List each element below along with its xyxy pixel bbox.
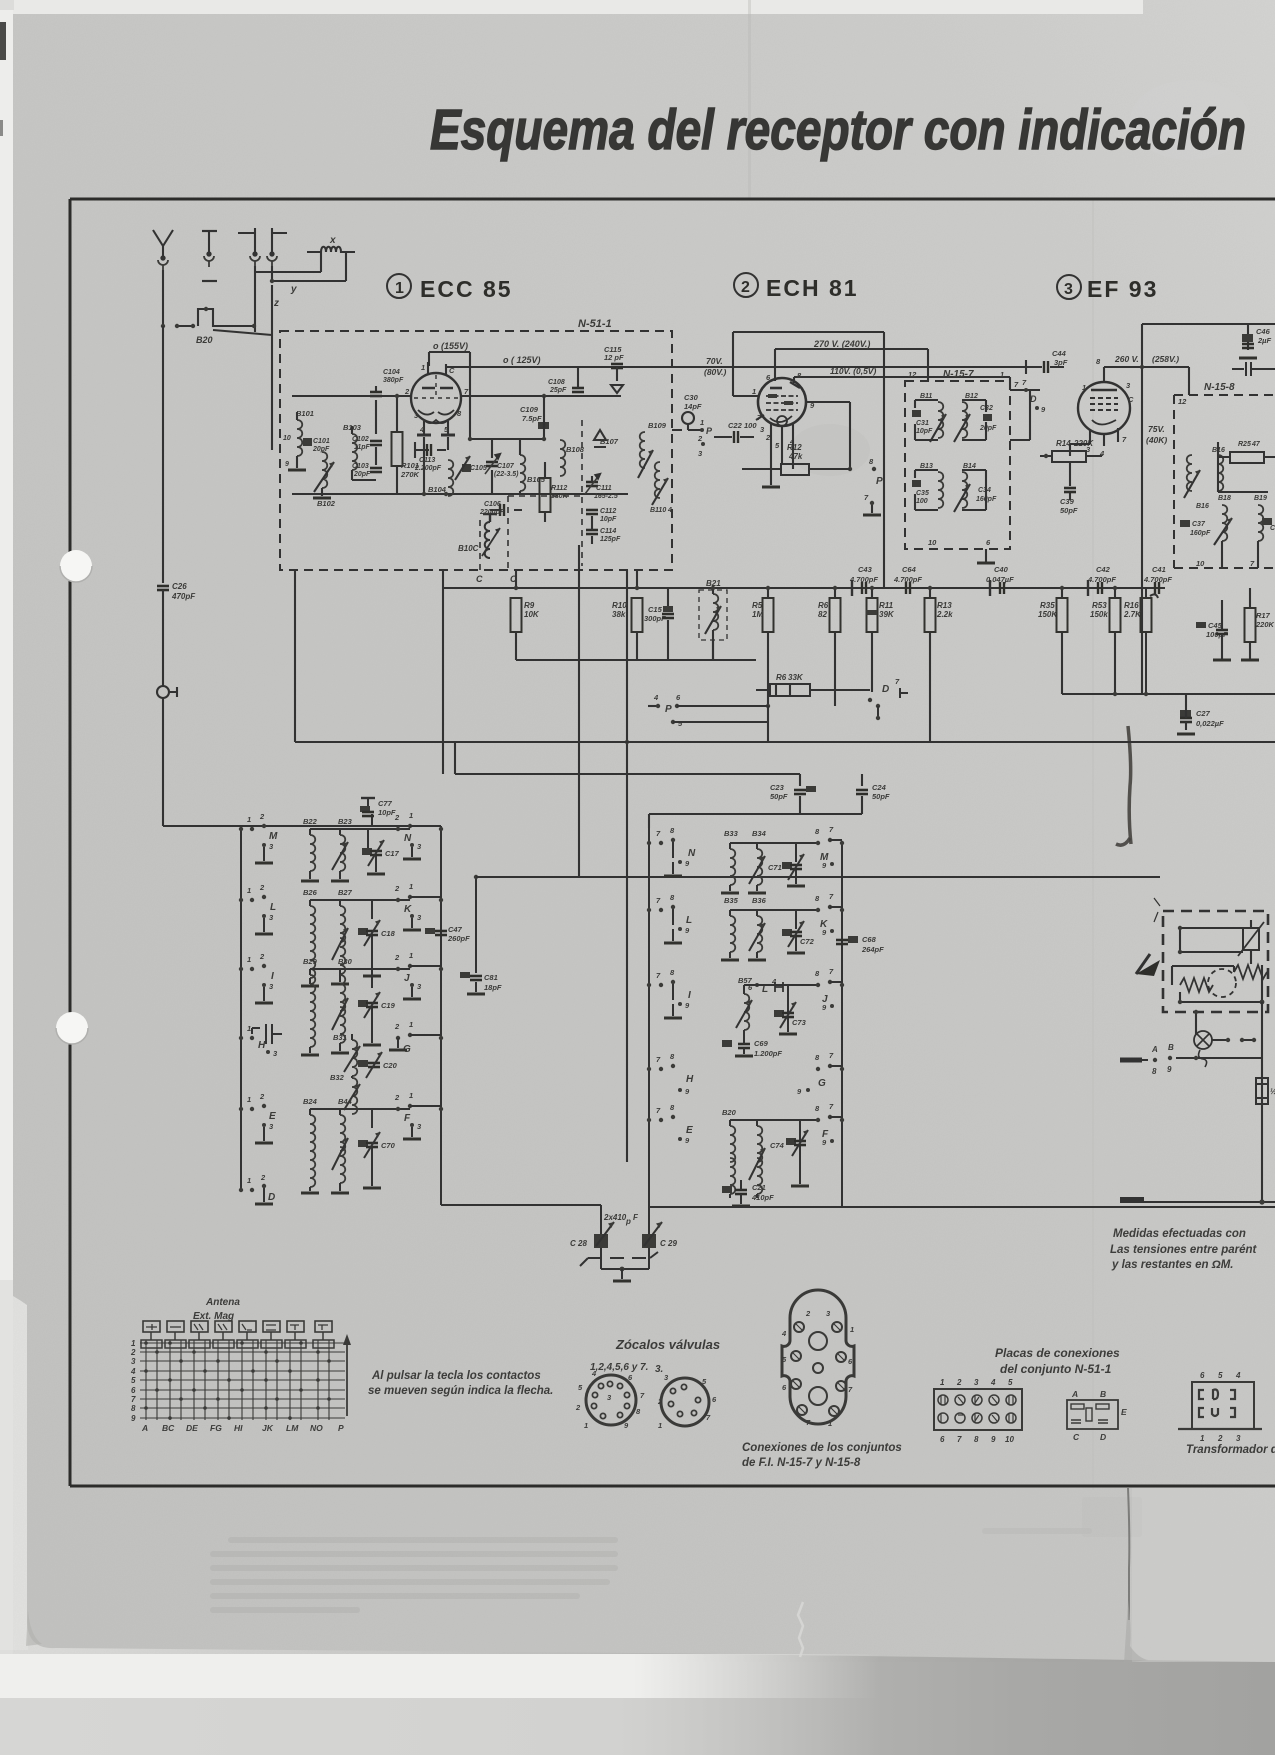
resistor R112 380K [540, 478, 551, 512]
row H/G [239, 1020, 443, 1114]
svg-text:A: A [1071, 1389, 1078, 1399]
heater resistor right [1234, 965, 1267, 979]
svg-text:C26: C26 [172, 582, 187, 591]
svg-text:C105: C105 [470, 465, 487, 472]
svg-text:4: 4 [591, 1369, 597, 1378]
coil B20c trimmer [756, 1120, 758, 1126]
wire bottom bus of box [292, 493, 628, 495]
svg-text:6: 6 [1200, 1371, 1205, 1380]
svg-text:1: 1 [828, 1419, 832, 1428]
svg-text:12: 12 [908, 370, 917, 379]
svg-text:BC: BC [162, 1423, 175, 1433]
svg-text:1: 1 [850, 1325, 854, 1334]
wire 774 + caps C23 C24 [455, 742, 862, 786]
svg-text:0,022µF: 0,022µF [1196, 719, 1224, 728]
svg-text:C20: C20 [383, 1061, 398, 1070]
note text medidas [1110, 1228, 1258, 1271]
wire o(125V) line [446, 366, 1040, 368]
svg-text:B20: B20 [196, 335, 213, 345]
svg-text:1: 1 [131, 1339, 136, 1348]
svg-text:4: 4 [1235, 1371, 1241, 1380]
svg-text:B32: B32 [330, 1073, 345, 1082]
stage label 1 ECC 85 [387, 274, 411, 298]
svg-text:C19: C19 [381, 1001, 396, 1010]
trimmer cap C70 [358, 1140, 368, 1147]
svg-text:1: 1 [658, 1421, 662, 1430]
svg-text:B101: B101 [296, 409, 314, 418]
svg-text:C109: C109 [520, 405, 539, 414]
svg-text:2: 2 [259, 952, 265, 961]
svg-text:20pF: 20pF [353, 471, 371, 478]
svg-text:B23: B23 [338, 817, 353, 826]
svg-text:R16: R16 [1124, 601, 1139, 610]
row L/K [647, 892, 884, 995]
contact P 4 6 [648, 705, 658, 707]
svg-text:B29: B29 [303, 957, 318, 966]
svg-text:10: 10 [1196, 559, 1205, 568]
svg-text:I: I [271, 971, 274, 982]
wire 877 to right [476, 876, 1160, 878]
svg-text:4.700pF: 4.700pF [893, 575, 922, 584]
svg-text:B33: B33 [724, 829, 739, 838]
row I/J [647, 967, 844, 1058]
svg-text:C: C [476, 574, 483, 584]
coil B105 [520, 455, 525, 491]
svg-text:150K: 150K [1038, 610, 1058, 619]
svg-text:B19: B19 [1254, 495, 1267, 502]
connection plate N-51-1 [934, 1389, 1022, 1430]
ECH81 pin leads [756, 415, 793, 485]
svg-text:7: 7 [957, 1435, 962, 1444]
svg-text:C46: C46 [1256, 327, 1271, 336]
svg-text:FG: FG [210, 1423, 222, 1433]
svg-text:C70: C70 [381, 1141, 396, 1150]
svg-text:C77: C77 [378, 799, 393, 808]
svg-text:C45: C45 [1208, 621, 1223, 630]
svg-text:47: 47 [1251, 441, 1261, 448]
wires upper cell [1180, 920, 1251, 964]
svg-text:2: 2 [394, 1093, 400, 1102]
svg-text:1M: 1M [752, 610, 763, 619]
svg-text:R53: R53 [1092, 601, 1107, 610]
heater resistor left [1180, 978, 1213, 992]
trimmer C111 [585, 474, 600, 494]
svg-text:se mueven según indica la fle: se mueven según indica la flecha. [368, 1385, 553, 1397]
pin numbers [404, 363, 469, 434]
svg-text:1: 1 [421, 363, 425, 372]
svg-text:165-2.5: 165-2.5 [594, 493, 618, 500]
svg-text:R14: R14 [1056, 439, 1071, 448]
coil B108 [560, 440, 565, 476]
caption conexiones FI [742, 1442, 902, 1469]
resistor R10 38k [632, 598, 643, 632]
trimmer cap C101 20pF [303, 438, 312, 446]
wire from box down [1195, 1012, 1197, 1034]
svg-text:82: 82 [818, 610, 827, 619]
svg-text:de F.I. N-15-7 y N-15-8: de F.I. N-15-7 y N-15-8 [742, 1457, 861, 1469]
resistor R5 1M [763, 598, 774, 632]
svg-text:8: 8 [131, 1404, 136, 1413]
fuse resistor [1256, 1078, 1268, 1104]
antenna A1 [153, 230, 173, 258]
ECH81 pin numbers [752, 371, 815, 450]
trimmer cap C73 [774, 1010, 784, 1017]
svg-text:1: 1 [247, 1176, 251, 1185]
svg-text:C71: C71 [768, 863, 782, 872]
svg-text:260 V.: 260 V. [1114, 354, 1139, 364]
inner partition dashes [508, 420, 582, 570]
svg-text:5: 5 [1008, 1378, 1013, 1387]
resistor R6 82 [830, 598, 841, 632]
svg-text:B24: B24 [303, 1097, 318, 1106]
right bus middle bank [841, 843, 843, 1207]
svg-text:C18: C18 [381, 929, 396, 938]
contact L2 small [755, 983, 759, 987]
svg-text:2x410: 2x410 [603, 1213, 627, 1222]
wire z down [271, 285, 273, 450]
label Antena [193, 1297, 240, 1322]
svg-text:P: P [665, 704, 672, 715]
heptode ECH81 envelope [758, 378, 806, 426]
contact grid rows [140, 1343, 345, 1418]
svg-text:10pF: 10pF [378, 808, 396, 817]
svg-text:C21: C21 [752, 1183, 766, 1192]
dark scan marks left edge [0, 22, 6, 60]
small plate ABCDE [1067, 1400, 1118, 1429]
svg-text:38k: 38k [612, 610, 626, 619]
svg-text:380K: 380K [551, 493, 569, 500]
svg-text:2: 2 [394, 1022, 400, 1031]
explanation text [368, 1370, 553, 1397]
svg-text:B: B [1100, 1389, 1106, 1399]
svg-text:C15: C15 [648, 605, 663, 614]
capacitor C27 0.022uF [1180, 710, 1191, 717]
svg-text:del conjunto N-51-1: del conjunto N-51-1 [1000, 1362, 1112, 1376]
svg-text:R9: R9 [524, 601, 535, 610]
svg-text:L: L [686, 915, 692, 926]
svg-text:160pF: 160pF [1190, 530, 1211, 537]
svg-text:10pF: 10pF [600, 516, 617, 523]
contact M [816, 841, 820, 845]
svg-text:18pF: 18pF [484, 983, 502, 992]
svg-text:4.700pF: 4.700pF [1143, 575, 1172, 584]
contact K [396, 898, 400, 902]
pentode EF93 envelope [1078, 382, 1130, 434]
svg-text:4.700pF: 4.700pF [849, 575, 878, 584]
subtle stains / creases [748, 0, 751, 200]
svg-text:R6: R6 [818, 601, 829, 610]
wire top cluster [352, 406, 376, 480]
svg-text:R35: R35 [1040, 601, 1055, 610]
svg-text:HI: HI [234, 1423, 243, 1433]
svg-text:20pF: 20pF [312, 446, 330, 453]
capacitor C77 10pF [361, 797, 375, 799]
svg-text:A: A [141, 1423, 148, 1433]
capacitor C47 260pF on bus [425, 928, 435, 934]
svg-text:260pF: 260pF [447, 934, 470, 943]
svg-text:D: D [1100, 1432, 1106, 1442]
svg-text:B18: B18 [1218, 495, 1231, 502]
svg-text:I: I [688, 990, 691, 1001]
svg-text:Antena: Antena [205, 1297, 240, 1308]
svg-text:2: 2 [697, 434, 703, 443]
svg-text:C72: C72 [800, 937, 815, 946]
svg-text:1: 1 [409, 882, 413, 891]
wire right vertical to bus [883, 332, 885, 588]
capacitor C39 50pF [1069, 462, 1071, 500]
svg-text:y: y [290, 284, 297, 295]
svg-text:10: 10 [283, 435, 291, 442]
svg-text:C106: C106 [484, 501, 501, 508]
wire [162, 590, 164, 686]
svg-text:4: 4 [419, 425, 425, 434]
capacitor C26 470pF [157, 586, 169, 590]
svg-text:LM: LM [286, 1423, 299, 1433]
svg-text:50pF: 50pF [1060, 506, 1078, 515]
crease dark line right [1128, 726, 1131, 844]
svg-text:B108: B108 [566, 445, 585, 454]
capacitor C106 2200pF [500, 504, 504, 516]
svg-text:R5: R5 [752, 601, 763, 610]
wire IF out [1010, 390, 1030, 440]
svg-text:2: 2 [575, 1403, 581, 1412]
svg-text:2: 2 [130, 1348, 136, 1357]
capacitor C68 264pF [848, 936, 858, 943]
svg-text:R12: R12 [787, 443, 802, 452]
svg-text:4: 4 [130, 1367, 136, 1376]
svg-text:150k: 150k [1090, 610, 1108, 619]
svg-text:Conexiones de los conjuntos: Conexiones de los conjuntos [742, 1442, 902, 1454]
capacitor C21 410pF [722, 1180, 774, 1206]
row I/J [239, 951, 443, 1055]
svg-text:2: 2 [259, 883, 265, 892]
ECH81 wire frame left [733, 332, 884, 396]
svg-text:14pF: 14pF [684, 402, 702, 411]
resistor R35 150K [1057, 598, 1068, 632]
trimmer cap C18 [358, 928, 368, 935]
coil B16 [1187, 455, 1192, 491]
svg-text:DE: DE [186, 1423, 198, 1433]
svg-text:C74: C74 [770, 1141, 785, 1150]
key glyphs [146, 1324, 328, 1330]
svg-text:9: 9 [131, 1414, 136, 1423]
svg-text:20pF: 20pF [979, 425, 997, 432]
svg-text:10: 10 [1005, 1435, 1014, 1444]
wire screen to contact [806, 402, 850, 469]
svg-text:50pF: 50pF [770, 792, 788, 801]
svg-text:C64: C64 [902, 565, 917, 574]
svg-text:8: 8 [974, 1435, 979, 1444]
svg-text:1: 1 [247, 815, 251, 824]
svg-text:B105: B105 [527, 475, 546, 484]
pointer arrow [1136, 960, 1160, 976]
padder C29 [648, 1207, 650, 1269]
svg-text:Esquema del receptor con indic: Esquema del receptor con indicación [430, 98, 1246, 162]
svg-text:N-15-7: N-15-7 [943, 369, 974, 380]
transformer X [307, 247, 355, 252]
svg-text:B44: B44 [338, 1097, 353, 1106]
svg-text:2µF: 2µF [1257, 336, 1271, 345]
svg-text:N: N [688, 848, 696, 859]
paper tear bottom [798, 1602, 803, 1657]
svg-text:6: 6 [131, 1386, 136, 1395]
row N/M [647, 825, 844, 893]
wire row 660 [516, 640, 756, 660]
svg-text:C42: C42 [1096, 565, 1111, 574]
ECC85 electrodes [422, 387, 453, 390]
capacitor C81 18pF [475, 877, 477, 973]
svg-text:B31: B31 [333, 1033, 347, 1042]
svg-text:C108: C108 [548, 379, 565, 386]
wire y to transformer [255, 252, 321, 272]
svg-text:2: 2 [657, 1397, 663, 1406]
capacitor C113 2200pF [415, 449, 446, 451]
bottom bus lines [441, 1205, 1275, 1207]
svg-text:3: 3 [1236, 1434, 1241, 1443]
svg-text:C69: C69 [754, 1039, 769, 1048]
white scanner strip top [13, 0, 1143, 14]
ghost bleed-through text [210, 1497, 1142, 1613]
svg-text:70V.: 70V. [706, 356, 723, 366]
svg-text:1: 1 [1200, 1434, 1205, 1443]
svg-text:D: D [882, 684, 889, 695]
trimmer coil B102 [322, 452, 327, 488]
svg-text:1: 1 [409, 1091, 413, 1100]
svg-text:C43: C43 [858, 565, 873, 574]
right bus of left bank [440, 826, 442, 1205]
svg-text:25pF: 25pF [549, 387, 567, 394]
svg-text:C103: C103 [352, 463, 369, 470]
svg-text:M: M [269, 831, 278, 842]
svg-text:1: 1 [247, 1095, 251, 1104]
wire to band switch [163, 698, 441, 826]
valve socket 7pin [661, 1378, 709, 1426]
svg-text:C39: C39 [1060, 497, 1075, 506]
stage label 3 EF 93 [1057, 275, 1081, 299]
svg-text:C: C [1073, 1432, 1080, 1442]
svg-text:C113: C113 [419, 457, 435, 464]
trimmer cap C71 [782, 862, 792, 869]
svg-text:JK: JK [262, 1423, 274, 1433]
coil B109 [640, 432, 645, 468]
padder C28 [570, 1205, 677, 1281]
svg-text:C: C [1270, 525, 1275, 532]
trimmer C107 [485, 454, 500, 474]
cable stub left [1120, 1058, 1142, 1063]
bottom cable stub [1120, 1197, 1144, 1203]
svg-text:7.5pF: 7.5pF [522, 414, 542, 423]
ground joint [601, 1268, 649, 1270]
svg-text:10pF: 10pF [916, 428, 933, 435]
svg-text:2: 2 [259, 1092, 265, 1101]
svg-text:R13: R13 [937, 601, 952, 610]
svg-text:1: 1 [1000, 370, 1004, 379]
ganged dashes [588, 1257, 646, 1259]
trimmer cap C74 [786, 1138, 796, 1145]
svg-text:Medidas efectuadas con: Medidas efectuadas con [1113, 1228, 1246, 1240]
svg-text:B20: B20 [722, 1108, 737, 1117]
capacitor C45 100pF [1196, 622, 1206, 628]
svg-text:C68: C68 [862, 935, 877, 944]
output transformer diagram [1192, 1382, 1254, 1429]
svg-text:5: 5 [1218, 1371, 1223, 1380]
svg-text:C35: C35 [916, 490, 929, 497]
svg-text:2: 2 [1217, 1434, 1223, 1443]
svg-text:1: 1 [584, 1421, 588, 1430]
svg-text:C107: C107 [497, 463, 515, 470]
contact A B [1151, 1043, 1174, 1076]
svg-text:E: E [269, 1111, 276, 1122]
wire right of tube [470, 367, 545, 439]
svg-text:o (155V): o (155V) [433, 341, 468, 351]
svg-text:4: 4 [781, 1329, 787, 1338]
svg-text:C73: C73 [792, 1018, 807, 1027]
svg-text:1: 1 [409, 951, 413, 960]
lighter zone right of crease bottom [1132, 1488, 1275, 1662]
svg-text:R10: R10 [612, 601, 627, 610]
svg-text:E: E [1121, 1407, 1127, 1417]
svg-text:2: 2 [394, 884, 400, 893]
svg-text:10: 10 [928, 538, 937, 547]
svg-text:4: 4 [990, 1378, 996, 1387]
svg-text:G: G [818, 1078, 826, 1089]
svg-text:75V.: 75V. [1148, 424, 1165, 434]
svg-text:5: 5 [131, 1376, 136, 1385]
svg-text:2: 2 [741, 279, 750, 296]
svg-text:2: 2 [394, 953, 400, 962]
row H/G [647, 1051, 844, 1096]
svg-text:C30: C30 [684, 393, 699, 402]
svg-text:3pF: 3pF [1054, 358, 1068, 367]
svg-text:3: 3 [131, 1357, 136, 1366]
capacitor C102 11pF [370, 441, 382, 445]
svg-text:1: 1 [247, 886, 251, 895]
svg-text:2200pF: 2200pF [479, 509, 505, 516]
punch hole top [60, 550, 92, 582]
svg-text:2: 2 [394, 813, 400, 822]
svg-text:C104: C104 [383, 369, 400, 376]
svg-text:(22-3.5): (22-3.5) [494, 471, 519, 478]
svg-text:C17: C17 [385, 849, 400, 858]
bus wire 588 [443, 587, 1165, 589]
antenna jack 2 [202, 230, 217, 232]
row L/K [239, 882, 443, 986]
svg-text:C101: C101 [313, 438, 330, 445]
svg-text:410pF: 410pF [751, 1193, 774, 1202]
svg-text:3: 3 [1064, 281, 1073, 298]
svg-text:12: 12 [1178, 397, 1187, 406]
svg-text:p: p [625, 1217, 631, 1226]
page corner shadow [26, 1610, 42, 1646]
svg-text:R112: R112 [551, 485, 567, 492]
svg-text:B110: B110 [650, 507, 666, 514]
wire verticals upper [443, 545, 637, 1162]
wire long bus 742 [295, 570, 1275, 742]
valve socket 9pin [586, 1375, 636, 1425]
contact D [868, 698, 872, 702]
svg-text:½: ½ [1270, 1087, 1275, 1096]
svg-text:4: 4 [667, 507, 672, 514]
row E/F [647, 1102, 844, 1198]
svg-text:100: 100 [744, 421, 757, 430]
svg-text:47k: 47k [788, 452, 803, 461]
svg-text:3.: 3. [655, 1364, 663, 1375]
svg-text:110V. (0,5V): 110V. (0,5V) [830, 366, 876, 376]
svg-text:264pF: 264pF [861, 945, 884, 954]
svg-text:y las restantes en ΩM.: y las restantes en ΩM. [1111, 1259, 1233, 1271]
resistor R17 220K [1245, 608, 1256, 642]
row E/F [239, 1091, 443, 1193]
